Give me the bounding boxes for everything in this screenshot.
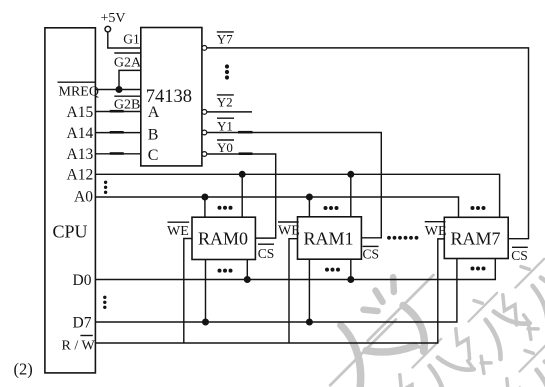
wire D7 branch RAM1 bbox=[308, 259, 310, 322]
WE label RAM1 bbox=[278, 222, 300, 239]
dots address A12..A0 bbox=[104, 181, 107, 194]
junction A12/RAM1 bbox=[347, 171, 354, 178]
+5V supply bbox=[101, 11, 126, 32]
svg-text:CS: CS bbox=[511, 248, 528, 263]
dots below RAM1 bbox=[325, 268, 340, 272]
junction A0/RAM1 bbox=[306, 194, 313, 201]
CS label RAM1 bbox=[363, 246, 380, 261]
wm char 2 bbox=[346, 254, 466, 374]
svg-text:A13: A13 bbox=[67, 146, 94, 163]
svg-text:R / W: R / W bbox=[62, 338, 96, 353]
wire D0 branch RAM0 bbox=[246, 260, 248, 280]
continuation dots RAM1..RAM7 bbox=[387, 236, 418, 240]
wire Y2 stub bbox=[207, 111, 252, 113]
wire D7 branch RAM0 bbox=[205, 260, 207, 323]
svg-text:G2A: G2A bbox=[114, 56, 142, 71]
wire R/W bus to RAM7 WE bbox=[95, 239, 444, 343]
wm char 5 bbox=[387, 329, 479, 387]
RAM0 box bbox=[192, 217, 255, 259]
junction D0/RAM0 bbox=[244, 276, 251, 283]
svg-text:Y2: Y2 bbox=[217, 95, 233, 110]
MREQ label bbox=[58, 82, 99, 99]
junction A0/RAM0 bbox=[201, 194, 208, 201]
wire Y7 to RAM7 CS bbox=[207, 48, 529, 239]
output bubble Y1 bbox=[202, 130, 207, 135]
svg-text:A0: A0 bbox=[74, 189, 93, 206]
wire D7 bus bbox=[95, 259, 457, 323]
74138 decoder U1 bbox=[141, 28, 202, 166]
dots above RAM1 bbox=[324, 206, 339, 210]
dots below RAM7 bbox=[471, 267, 486, 271]
dots Y outputs bbox=[225, 64, 229, 79]
Y7 label bbox=[217, 31, 234, 46]
svg-text:G1: G1 bbox=[123, 32, 140, 47]
wm char 4 bbox=[490, 249, 545, 341]
wire A15 to A bbox=[95, 110, 140, 112]
svg-text:A12: A12 bbox=[67, 167, 94, 184]
dots below RAM0 bbox=[218, 269, 233, 273]
RAM1 box bbox=[298, 217, 362, 259]
svg-text:RAM0: RAM0 bbox=[198, 229, 248, 249]
svg-text:+5V: +5V bbox=[101, 11, 126, 26]
svg-text:A: A bbox=[148, 104, 160, 121]
dots above RAM7 bbox=[471, 206, 486, 210]
G2A label bbox=[114, 53, 142, 71]
wire A0 branch RAM1 bbox=[308, 197, 310, 217]
wm char 3 bbox=[443, 283, 535, 375]
G2B label bbox=[114, 96, 142, 112]
WE label RAM7 bbox=[425, 222, 447, 239]
junction D7/RAM0 bbox=[202, 319, 209, 326]
junction D7/RAM1 bbox=[306, 319, 313, 326]
svg-text:Y1: Y1 bbox=[217, 118, 233, 133]
wire A12 branch RAM1 bbox=[350, 174, 352, 217]
wm char 6 bbox=[494, 333, 545, 387]
Y0 label bbox=[217, 140, 234, 155]
wire WE RAM0 bbox=[184, 239, 192, 344]
svg-text:WE: WE bbox=[278, 224, 300, 239]
wire A12 bus bbox=[95, 174, 499, 217]
svg-text:RAM1: RAM1 bbox=[304, 229, 354, 249]
svg-text:Y7: Y7 bbox=[217, 31, 233, 46]
CPU box bbox=[45, 28, 96, 373]
output bubble Y7 bbox=[202, 46, 207, 51]
svg-text:Y0: Y0 bbox=[217, 140, 233, 155]
wire G2A stub bbox=[119, 70, 141, 89]
svg-text:(2): (2) bbox=[14, 360, 33, 379]
svg-text:D7: D7 bbox=[73, 314, 92, 331]
wire MREQ to G2B bbox=[95, 89, 140, 91]
WE label RAM0 bbox=[167, 222, 189, 239]
wm char 1 bbox=[305, 295, 418, 387]
wire A13 to C bbox=[95, 153, 140, 155]
dots data D0..D7 bbox=[103, 296, 106, 309]
svg-text:WE: WE bbox=[167, 224, 189, 239]
wire +5V to G1 bbox=[108, 32, 141, 48]
wire D0 bus bbox=[95, 259, 495, 280]
svg-text:A15: A15 bbox=[67, 104, 94, 121]
output bubble Y2 bbox=[202, 110, 207, 115]
wire Y1 to RAM1 CS bbox=[207, 132, 381, 238]
junction D0/RAM1 bbox=[347, 276, 354, 283]
R/W label bbox=[62, 336, 96, 354]
output bubble Y0 bbox=[202, 152, 207, 157]
svg-text:A14: A14 bbox=[67, 125, 94, 142]
wire D0 branch RAM1 bbox=[350, 259, 352, 279]
svg-text:CPU: CPU bbox=[53, 222, 88, 242]
svg-text:CS: CS bbox=[258, 246, 275, 261]
wire A12 branch RAM0 bbox=[241, 174, 243, 217]
svg-text:C: C bbox=[148, 147, 159, 164]
CS label RAM7 bbox=[511, 247, 528, 262]
wire A0 bus bbox=[95, 197, 458, 217]
wire A14 to B bbox=[95, 131, 140, 133]
Y1 label bbox=[217, 118, 234, 133]
svg-text:D0: D0 bbox=[73, 272, 92, 289]
wire Y0 to RAM0 CS bbox=[207, 154, 276, 238]
svg-text:B: B bbox=[148, 126, 159, 143]
junction A12/RAM0 bbox=[239, 171, 246, 178]
junction MREQ/G2A bbox=[116, 86, 123, 93]
Y2 label bbox=[217, 95, 234, 110]
RAM7 box bbox=[444, 217, 508, 258]
CS label RAM0 bbox=[258, 244, 275, 261]
svg-text:CS: CS bbox=[363, 246, 380, 261]
dots above RAM0 bbox=[218, 206, 233, 210]
wire WE RAM1 bbox=[289, 239, 298, 343]
svg-text:WE: WE bbox=[425, 224, 447, 239]
svg-text:RAM7: RAM7 bbox=[451, 229, 501, 249]
svg-text:MREQ: MREQ bbox=[59, 84, 99, 99]
wire A0 branch RAM0 bbox=[204, 197, 206, 217]
